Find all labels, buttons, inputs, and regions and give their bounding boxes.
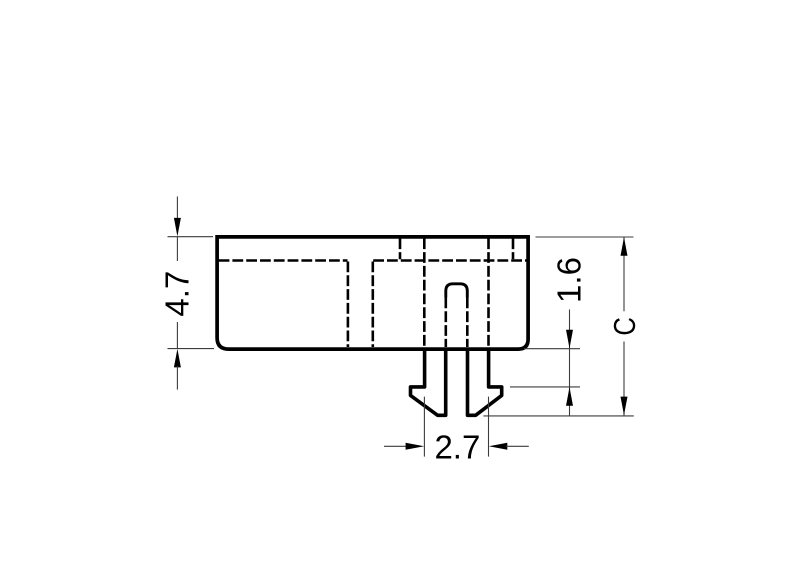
hidden line horizontal right [373, 259, 527, 262]
hidden line vertical channel left [347, 262, 350, 348]
svg-text:C: C [608, 317, 642, 336]
hidden slot left side [444, 298, 447, 348]
dim 4.7 top arrow [176, 197, 178, 220]
left leg [411, 348, 446, 416]
svg-text:1.6: 1.6 [551, 257, 588, 303]
hidden line vertical short b [512, 238, 515, 259]
dim 4.7 extension line top [168, 236, 214, 238]
dim C down arrow [621, 397, 628, 416]
dim 4.7 line upper [176, 237, 178, 261]
hidden slot right side [466, 298, 469, 348]
hidden line vertical long left-leg edge [423, 238, 426, 347]
dim C extension line bottom [483, 415, 633, 417]
svg-text:2.7: 2.7 [434, 429, 480, 466]
dim C line upper [623, 237, 625, 311]
dim 4.7 extension line bottom [168, 348, 215, 350]
slot cap arc [446, 284, 468, 298]
right leg [468, 348, 502, 416]
dim 1.6 down arrow [569, 310, 571, 416]
dim 1.6 extension line top [524, 348, 580, 350]
body outline [217, 237, 528, 349]
dim 1.6 extension line bottom [510, 386, 580, 388]
dim 4.7 bottom arrow [174, 349, 181, 368]
dim C extension line top [536, 236, 634, 238]
dim 1.6 up arrow [566, 387, 573, 406]
svg-text:4.7: 4.7 [158, 271, 195, 317]
dim C line lower [623, 342, 625, 416]
dim 4.7 line lower [176, 322, 178, 349]
hidden line vertical short a [399, 238, 402, 259]
dim 2.7 left arrow [384, 445, 407, 447]
hidden line horizontal left [219, 259, 348, 262]
hidden line vertical channel right [371, 262, 374, 348]
hidden line vertical long right-leg edge [487, 238, 490, 347]
dim 2.7 right arrow [489, 443, 508, 450]
dim 2.7 extension line right [488, 397, 490, 457]
dim C up arrow [621, 237, 628, 256]
dim 2.7 extension line left [423, 397, 425, 457]
